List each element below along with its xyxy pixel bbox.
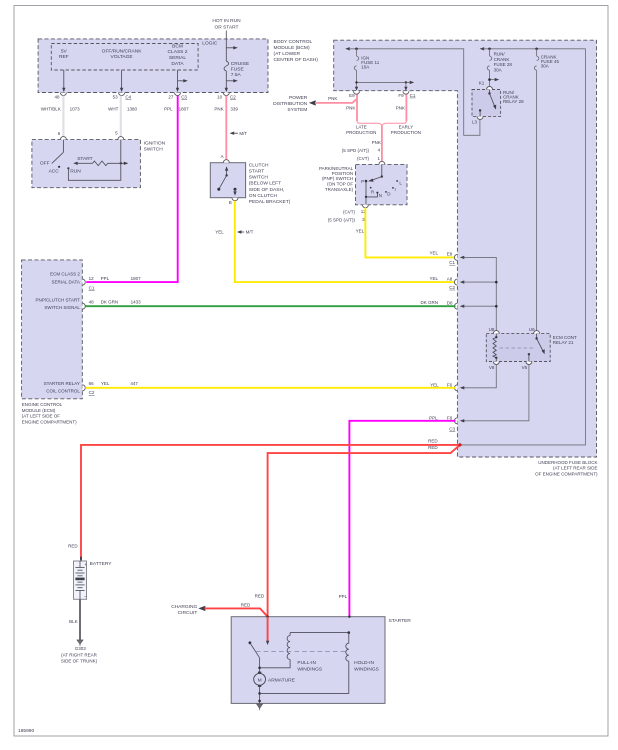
wire PPL 1807 BCM pin27 to ECM pin12 [86,96,178,283]
wire YEL clutch B to underhood A8 [235,201,456,282]
wire hot feed into BCM [225,31,227,45]
svg-text:YEL: YEL [101,381,110,386]
svg-text:SYSTEM: SYSTEM [287,107,307,113]
wire RUN/CRANK fuse to K1 with branch arrow [488,70,499,86]
svg-text:V8: V8 [489,365,495,370]
svg-text:PPL: PPL [164,107,173,112]
svg-text:RUN/: RUN/ [494,51,506,56]
svg-text:B: B [229,200,232,205]
wire BCM class2 serial internal drop [176,70,188,92]
svg-text:CIRCUIT: CIRCUIT [178,610,198,616]
ignition switch box [32,140,140,188]
svg-text:CRUISE: CRUISE [231,61,250,67]
wire E8/A8/D8 collector to relay U8 [460,256,498,331]
svg-text:5V: 5V [61,48,68,54]
wire WHT 1380 [120,96,122,137]
svg-text:N: N [379,193,382,198]
wire WHT/BLK 1073 [62,96,64,137]
svg-text:WHT: WHT [108,107,118,112]
svg-text:PNK: PNK [346,105,355,110]
svg-text:UNDERHOOD FUSE BLOCK: UNDERHOOD FUSE BLOCK [538,460,597,465]
node POWER DISTRIBUTION SYSTEM [273,95,316,113]
wire labels row under BCM [41,107,239,112]
wire RED underhood to starter [268,445,460,617]
svg-text:RED: RED [255,594,265,599]
bus B battery feed [460,47,585,445]
wire YEL PNP to underhood E8 [365,208,455,258]
svg-text:C2: C2 [230,94,236,99]
svg-text:C3: C3 [181,94,187,99]
svg-text:ENGINE COMPARTMENT): ENGINE COMPARTMENT) [22,420,77,425]
pin labels BCM [54,94,236,99]
svg-text:A: A [221,154,224,159]
svg-text:WINDINGS: WINDINGS [354,666,380,672]
svg-text:SERIAL DATA: SERIAL DATA [51,280,79,285]
coil HOLD-IN WINDINGS [260,616,380,694]
svg-text:RELAY 28: RELAY 28 [503,99,524,104]
wire YEL 447 ECM to F6 [85,387,455,389]
wire BCM 5V REF internal drop [62,70,65,92]
battery [68,544,112,600]
svg-text:CHARGING: CHARGING [171,604,197,610]
svg-text:HOT IN RUN: HOT IN RUN [212,18,241,24]
svg-text:YEL: YEL [429,250,438,255]
svg-text:TRANSAXLE): TRANSAXLE) [325,187,354,192]
ground G303 [61,640,98,664]
relay ECM CONT RELAY 21 [486,327,577,370]
svg-text:30A: 30A [494,68,502,73]
wire CRANK fuse 45 down to U6 [536,70,538,330]
svg-text:PPL: PPL [101,276,110,281]
wire PNK brace to PNP switch [381,126,383,162]
svg-text:F9: F9 [398,93,404,98]
svg-text:CENTER OF DASH): CENTER OF DASH) [274,57,319,63]
wire PNK F9 drop (early production) [405,94,407,121]
svg-text:7.5A: 7.5A [231,72,242,78]
svg-text:COIL CONTROL: COIL CONTROL [46,389,80,394]
svg-text:V6: V6 [522,365,528,370]
starter box [231,617,385,704]
svg-text:(5 SPD (A/T)): (5 SPD (A/T)) [328,218,356,223]
svg-text:PNK: PNK [372,140,381,145]
wire armature to ground [258,687,261,704]
wire IGN fuse to E9/F9 with branch arrow [355,70,414,90]
svg-text:(AT LEFT REAR SIDE: (AT LEFT REAR SIDE [553,466,598,471]
svg-text:DK GRN: DK GRN [101,299,119,304]
svg-text:1380: 1380 [127,107,138,112]
svg-text:(CVT): (CVT) [357,156,369,161]
svg-text:ENGINE CONTROL: ENGINE CONTROL [22,402,63,407]
svg-text:M/T: M/T [246,230,254,235]
svg-text:STARTER RELAY: STARTER RELAY [44,381,80,386]
svg-text:447: 447 [130,381,138,386]
fuse CRUISE FUSE 7.5A [224,44,229,71]
switch clutch internal [217,166,236,195]
PNP switch box (park/neutral position, on top of transaxle) [356,164,408,204]
svg-text:C1: C1 [89,286,95,291]
connector bumps ECM pins 12 48 66 [82,276,95,395]
connector bump clutch pin B [232,198,238,201]
svg-text:−: − [84,595,87,600]
connector bumps E9 F9 [349,91,416,98]
connector bump clutch pin A [223,160,229,163]
svg-text:FUSE 28: FUSE 28 [494,62,513,67]
svg-text:SWITCH SIGNAL: SWITCH SIGNAL [44,305,80,310]
svg-text:STARTER: STARTER [389,618,412,624]
svg-text:12: 12 [89,276,95,281]
wire RED charging circuit [205,608,268,616]
svg-text:MODULE (BCM): MODULE (BCM) [274,45,310,51]
motor armature M [254,672,296,687]
svg-text:HOLD-IN: HOLD-IN [354,660,374,666]
ECM box (engine control module) [22,260,83,399]
svg-text:BATTERY: BATTERY [90,561,113,567]
svg-text:K1: K1 [479,81,485,86]
svg-text:(AT RIGHT REAR: (AT RIGHT REAR [61,652,98,657]
svg-text:10: 10 [217,94,223,99]
svg-text:SIDE OF DASH,: SIDE OF DASH, [249,187,285,193]
svg-text:DATA: DATA [171,61,184,67]
wire PPL F8 to starter hold-in [349,421,455,617]
svg-text:RED: RED [241,602,251,607]
svg-text:53: 53 [113,94,119,99]
svg-text:I: I [395,187,396,192]
bus A run/crank relay output feed [345,47,480,135]
svg-text:RELAY 21: RELAY 21 [553,340,574,345]
annotation M/T on YEL wire [215,230,253,235]
svg-text:SWITCH: SWITCH [144,146,164,152]
svg-text:1433: 1433 [131,299,142,304]
wire PNK to power distribution [315,99,357,103]
wire BCM pin10 internal drop [225,71,238,92]
fuse IGN FUSE 11 10A [354,49,379,71]
svg-text:WHT/BLK: WHT/BLK [41,107,61,112]
svg-text:YEL: YEL [429,276,438,281]
svg-text:BCM: BCM [172,43,183,49]
svg-text:ACC: ACC [49,168,60,174]
svg-text:E8: E8 [447,252,453,257]
svg-text:OFF: OFF [40,160,50,166]
svg-text:OR START: OR START [214,24,238,30]
svg-text:(5 SPD (A/T)): (5 SPD (A/T)) [342,148,370,153]
connector bump PNP pin 12/3 bottom [362,205,368,208]
svg-text:VOLTAGE: VOLTAGE [111,54,134,60]
pin labels PNP bottom [328,209,367,222]
coil PULL-IN WINDINGS [260,633,349,673]
svg-text:LOGIC: LOGIC [202,40,218,46]
wire V6 to F8 [460,364,529,422]
svg-text:RED: RED [68,544,78,549]
svg-text:PEDAL BRACKET): PEDAL BRACKET) [249,199,291,205]
svg-text:(BELOW LEFT: (BELOW LEFT [249,181,281,187]
svg-text:G303: G303 [75,646,87,651]
connector bumps BCM pins 48 53 27 10 [60,93,229,96]
mechanical link dashed [256,651,347,653]
switch starter solenoid contacts [249,641,261,673]
svg-text:F8: F8 [447,415,453,420]
svg-text:MODULE (ECM): MODULE (ECM) [22,408,56,413]
svg-text:C1: C1 [449,260,455,265]
node red junction [458,443,461,446]
svg-text:66: 66 [89,381,95,386]
svg-text:CLUTCH: CLUTCH [249,162,269,168]
node CHARGING CIRCUIT [171,604,205,616]
connector bumps ignition pins 6 5 [58,130,124,139]
svg-text:PRODUCTION: PRODUCTION [346,130,376,135]
svg-text:P: P [361,179,364,184]
svg-text:ECM CLASS 2: ECM CLASS 2 [50,272,80,277]
svg-text:1807: 1807 [179,107,190,112]
wire DK GRN 1433 ECM to D8 [85,305,455,307]
svg-text:27: 27 [168,94,174,99]
svg-text:A8: A8 [447,276,453,281]
fuse RUN/CRANK FUSE 28 30A [487,49,512,73]
svg-text:PRODUCTION: PRODUCTION [391,130,421,135]
svg-text:F6: F6 [447,383,453,388]
ground starter [257,704,263,708]
connector bumps E8 A8 D8 on left edge [420,250,457,309]
svg-text:ARMATURE: ARMATURE [268,678,296,684]
wire RED battery feed labels [428,438,438,450]
svg-text:339: 339 [230,107,238,112]
wire V8 to F6 [460,364,497,389]
connector bump PNP pin 4/1 top [379,161,385,164]
switch PNP internal lever and contacts [361,164,402,204]
wire PNK 339 BCM to clutch switch [225,96,227,160]
svg-text:C1: C1 [410,93,416,98]
svg-text:CLASS 2: CLASS 2 [168,49,188,55]
svg-text:ON CLUTCH: ON CLUTCH [249,193,278,199]
svg-text:(AT LEFT SIDE OF: (AT LEFT SIDE OF [22,414,61,419]
svg-text:FUSE: FUSE [231,66,245,72]
wire RED underhood to battery [81,445,460,559]
svg-text:POWER: POWER [289,95,308,101]
svg-text:BODY CONTROL: BODY CONTROL [274,39,313,45]
relay RUN/CRANK RELAY 28 [472,81,524,125]
svg-text:10A: 10A [361,65,369,70]
svg-text:DISTRIBUTION: DISTRIBUTION [273,101,308,107]
underhood fuse block caption [535,460,598,476]
svg-text:(AT LOWER: (AT LOWER [274,51,301,57]
svg-text:YEL: YEL [215,230,224,235]
svg-text:EARLY: EARLY [399,125,413,130]
svg-text:RED: RED [428,438,438,443]
svg-text:U6: U6 [529,327,535,332]
svg-text:CRANK: CRANK [494,57,510,62]
svg-text:48: 48 [54,94,60,99]
svg-text:(CVT): (CVT) [343,210,355,215]
svg-text:YEL: YEL [430,383,439,388]
ECM caption [22,402,77,425]
svg-text:REF: REF [59,54,69,60]
wire red into starter solenoid [266,615,269,645]
svg-text:+: + [84,563,87,568]
svg-text:PULL-IN: PULL-IN [297,660,316,666]
node HOT IN RUN OR START [212,18,241,31]
connector bumps F6 F8 [429,383,457,432]
svg-text:C3: C3 [449,426,455,431]
svg-text:PNK: PNK [396,105,405,110]
svg-text:PNP/CLUTCH START: PNP/CLUTCH START [36,298,81,303]
svg-text:START: START [249,169,264,175]
wire BCM off/run/crank internal drop [120,70,123,92]
svg-text:1073: 1073 [70,107,81,112]
svg-text:YEL: YEL [356,228,365,233]
svg-text:WINDINGS: WINDINGS [297,666,323,672]
underhood fuse block (at left rear side of engine compartment) [334,40,597,457]
wire ignition pin5 to RUN contact [68,140,120,181]
ECM wire labels [101,276,142,386]
svg-text:START: START [77,156,92,162]
svg-text:IGNITION: IGNITION [144,140,166,146]
annotation M/T on PNK wire [230,131,248,136]
svg-text:L3: L3 [472,119,478,124]
svg-text:PNK: PNK [214,107,223,112]
svg-text:DK GRN: DK GRN [420,300,438,305]
svg-text:M/T: M/T [239,131,247,136]
svg-text:PPL: PPL [429,415,438,420]
BCM box (body control module) [38,39,268,93]
svg-text:(PNP) SWITCH: (PNP) SWITCH [322,176,353,181]
svg-text:D8: D8 [447,300,453,305]
clutch start switch box [210,163,245,198]
svg-text:48: 48 [89,299,95,304]
svg-text:SIDE OF TRUNK): SIDE OF TRUNK) [61,659,98,664]
wire BLK battery to ground [69,599,80,640]
wire BCM logic branch at top [226,46,238,49]
svg-text:LATE: LATE [356,125,367,130]
svg-text:M: M [258,678,262,684]
brace late/early production merge [357,121,406,126]
wire PNK E9 drop (late production) [356,94,358,121]
svg-text:185990: 185990 [18,728,34,734]
BCM labels [59,39,318,78]
svg-text:E9: E9 [349,93,355,98]
labels PNK at E9/F9 [328,96,405,111]
svg-text:OF ENGINE COMPARTMENT): OF ENGINE COMPARTMENT) [535,471,598,476]
svg-text:BLK: BLK [69,619,78,624]
svg-text:30A: 30A [541,64,549,69]
svg-text:1807: 1807 [131,276,142,281]
svg-text:C4: C4 [125,94,131,99]
svg-text:(ON TOP OF: (ON TOP OF [327,181,353,186]
svg-text:PPL: PPL [339,594,348,599]
resistor START contact with arrows [73,161,128,166]
svg-text:SWITCH: SWITCH [249,175,269,181]
switch ignition internal OFF/ACC/RUN/START [40,140,93,175]
svg-text:RUN: RUN [70,168,81,174]
fuse CRANK FUSE 45 30A [534,49,559,71]
pin labels PNP top [342,148,381,162]
svg-text:PNK: PNK [328,96,337,101]
svg-text:SERIAL: SERIAL [169,55,187,61]
svg-text:U8: U8 [489,327,495,332]
svg-text:C2: C2 [89,390,95,395]
svg-text:OFF/RUN/CRANK: OFF/RUN/CRANK [102,48,143,54]
svg-text:C2: C2 [449,285,455,290]
